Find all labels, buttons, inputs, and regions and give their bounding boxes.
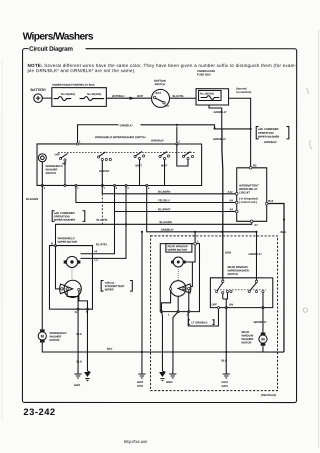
- svg-text:BLK: BLK: [221, 360, 227, 363]
- windshield wiper motor box: [49, 237, 92, 310]
- svg-text:GRN/BLK²: GRN/BLK²: [248, 253, 261, 256]
- ground G301/G401 center (open): [137, 371, 146, 388]
- rear switch unit left: [211, 280, 233, 306]
- wire GRN/BLK1 horizontal distribution: [78, 124, 251, 144]
- svg-text:YEL/BLU: YEL/BLU: [158, 199, 170, 202]
- svg-text:WIPER MOTOR: WIPER MOTOR: [167, 249, 187, 252]
- rear window wiper motor box: [160, 244, 199, 313]
- switch unit 2 OFF/INT: [97, 152, 111, 186]
- wire drop to switch box second feed: [176, 127, 178, 145]
- svg-text:IG1: IG1: [165, 105, 170, 108]
- wire rear motor ground left: [161, 312, 178, 371]
- svg-text:GRN/BLK¹: GRN/BLK¹: [151, 139, 164, 142]
- wire fuse14 output GRN/BLK1 elbow: [209, 105, 227, 129]
- svg-text:(Hatchback): (Hatchback): [261, 394, 276, 397]
- svg-text:A12: A12: [228, 191, 233, 194]
- scan artifact marks right edge: [303, 88, 312, 312]
- svg-text:WHT/BLU: WHT/BLU: [112, 95, 124, 98]
- svg-text:GRN/BLK¹: GRN/BLK¹: [213, 138, 226, 141]
- terminal A8: [230, 208, 239, 212]
- svg-text:BLK: BLK: [107, 348, 113, 351]
- svg-text:G301: G301: [137, 381, 144, 384]
- svg-text:2: 2: [179, 141, 181, 144]
- svg-text:MOTOR: MOTOR: [241, 342, 251, 345]
- ignition switch: [152, 80, 170, 108]
- svg-text:MOTOR: MOTOR: [49, 339, 59, 342]
- svg-text:M: M: [41, 334, 45, 339]
- wire battery to under-hood fuse box: [42, 97, 52, 99]
- terminal A9: [230, 199, 239, 203]
- svg-text:GRN/BLK¹: GRN/BLK¹: [120, 124, 133, 127]
- svg-text:4a: 4a: [74, 311, 77, 314]
- svg-text:No.36(30A): No.36(30A): [87, 93, 101, 96]
- svg-text:SWITCH: SWITCH: [155, 83, 166, 86]
- svg-text:Circuit Diagram: Circuit Diagram: [29, 46, 73, 53]
- wire LO into motor box: [80, 224, 126, 262]
- svg-text:GRN/BLK¹: GRN/BLK¹: [264, 141, 277, 144]
- windshield wiper/washer switch box: [37, 136, 202, 186]
- wire wiper motor grounds drop: [76, 309, 87, 371]
- svg-text:BLU/YEL: BLU/YEL: [97, 219, 109, 222]
- svg-text:OPERATION: OPERATION: [258, 132, 274, 135]
- under-hood fuse/relay box: [52, 84, 107, 107]
- svg-text:OFF/INT: OFF/INT: [99, 170, 110, 173]
- ground rear motor left (solid): [159, 370, 166, 380]
- wire GRN/BLK1 long bus to rear switch: [222, 129, 231, 280]
- wire GRN/BLK2 to rear washer motor: [253, 308, 266, 335]
- svg-text:WIPER MOTOR: WIPER MOTOR: [57, 241, 77, 244]
- cam park switch plate: [60, 280, 82, 297]
- rear window washer motor: [241, 331, 267, 352]
- wiper motor M1: [64, 256, 81, 267]
- rear cam park switch plate: [169, 281, 190, 297]
- rear cam internal wires: [161, 262, 192, 312]
- svg-text:GRN/BLK¹: GRN/BLK¹: [161, 229, 174, 232]
- terminal B5: [249, 165, 257, 170]
- wire LT GRN/BLK: [188, 308, 218, 326]
- fuse No.41 (80A): [54, 93, 76, 101]
- svg-text:with COMBINED: with COMBINED: [257, 128, 279, 131]
- svg-text:BLU/YEL: BLU/YEL: [96, 243, 108, 246]
- svg-text:G553: G553: [166, 381, 173, 384]
- svg-text:WHT: WHT: [137, 95, 143, 98]
- svg-text:BLK: BLK: [76, 360, 82, 363]
- svg-text:WIPER WASHER: WIPER WASHER: [54, 219, 75, 222]
- svg-text:1: 1: [77, 187, 79, 190]
- terminal labels wiper motor bottom: [74, 311, 88, 314]
- switch unit 4: [159, 151, 170, 185]
- svg-text:3: 3: [44, 187, 46, 190]
- windshield washer switch contact: [38, 154, 62, 186]
- svg-text:M: M: [261, 337, 265, 342]
- terminal labels rear motor bottom: [168, 314, 189, 317]
- scan artifact line right edge: [318, 30, 320, 448]
- svg-text:( control unit ): ( control unit ): [239, 201, 257, 204]
- svg-text:WIPER: WIPER: [105, 288, 114, 291]
- svg-text:No.14(20A): No.14(20A): [200, 93, 214, 96]
- rear window wiper/washer switch box: [210, 266, 272, 309]
- wire BLK/YEL ignition to under-dash fuse box: [170, 95, 197, 98]
- svg-text:BLK: BLK: [280, 231, 286, 234]
- svg-text:4: 4: [127, 187, 129, 190]
- rear switch mechanical link: [214, 289, 266, 291]
- svg-text:CIRCUIT: CIRCUIT: [239, 192, 250, 195]
- svg-text:UNDER-HOOD FUSE/RELAY BOX: UNDER-HOOD FUSE/RELAY BOX: [52, 84, 95, 87]
- svg-text:BLU/GRN: BLU/GRN: [158, 191, 170, 194]
- svg-text:BATTERY: BATTERY: [31, 88, 47, 92]
- svg-text:http://txz.ws/: http://txz.ws/: [124, 439, 148, 444]
- hatchback dashed box: [151, 236, 278, 397]
- wire rear motor feed from H4: [183, 231, 199, 262]
- wire GRN/BLK1 drop to rear switch right unit: [248, 231, 261, 281]
- terminal A10: [228, 191, 239, 195]
- switch unit 5: [177, 144, 194, 166]
- svg-text:LT GRN/BLK: LT GRN/BLK: [191, 322, 207, 325]
- fuse No.36 (30A): [80, 93, 105, 101]
- svg-text:BAT: BAT: [156, 92, 162, 95]
- wire WHT/BLU to ignition switch: [106, 95, 151, 100]
- cam switch internal wiring: [67, 290, 87, 309]
- wire B14 to right bus: [268, 204, 286, 353]
- svg-text:SWITCH: SWITCH: [227, 273, 238, 276]
- svg-text:BLU/GRN: BLU/GRN: [160, 221, 172, 224]
- svg-text:G301: G301: [74, 384, 81, 387]
- scan artifact line left edge: [1, 60, 3, 420]
- svg-text:MIST: MIST: [136, 164, 143, 167]
- svg-text:OFF: OFF: [211, 304, 217, 307]
- terminal A7: [250, 220, 258, 227]
- dotted link motor to cam: [71, 268, 73, 280]
- svg-text:GRN: GRN: [225, 252, 231, 255]
- rear wiper motor M2: [171, 257, 186, 267]
- svg-text:7: 7: [104, 187, 106, 190]
- intermittent wiper relay circuit box: [237, 168, 267, 222]
- wire drop BLK/GRN to washer motor: [26, 185, 42, 331]
- svg-text:1: 1: [168, 314, 170, 317]
- svg-text:Wipers/Washers: Wipers/Washers: [23, 31, 94, 42]
- fuse No.14 (20A): [199, 91, 222, 101]
- svg-text:G301: G301: [221, 381, 228, 384]
- option bracket with combined operation wiper washer (left): [52, 211, 85, 222]
- wire BLU/WHT H4 motor feed: [55, 185, 251, 245]
- svg-text:6: 6: [148, 187, 150, 190]
- svg-text:G401: G401: [137, 385, 144, 388]
- svg-text:BLU/WHT: BLU/WHT: [158, 208, 171, 211]
- svg-text:WIPER WASHER: WIPER WASHER: [258, 136, 279, 139]
- wire HI into motor box: [80, 211, 114, 253]
- svg-text:SWITCH: SWITCH: [46, 172, 57, 175]
- battery B1: [31, 88, 47, 103]
- svg-text:No.41(80A): No.41(80A): [61, 93, 75, 96]
- svg-text:G401: G401: [221, 385, 228, 388]
- terminal B14: [265, 200, 273, 205]
- wiper motor internal wire left: [55, 246, 60, 289]
- svg-text:8: 8: [116, 187, 118, 190]
- terminal marks on switch box bottom: [44, 140, 181, 190]
- note text: [28, 63, 297, 73]
- svg-text:WINDSHIELD WIPER/WASHER SWITCH: WINDSHIELD WIPER/WASHER SWITCH: [95, 136, 146, 139]
- internal connection note: [236, 88, 251, 95]
- svg-text:FUSE BOX: FUSE BOX: [197, 74, 211, 77]
- svg-text:A7: A7: [254, 224, 258, 227]
- wire BLU/YEL dashed option drop: [97, 194, 109, 225]
- wire BLK drop to ground G301: [141, 232, 143, 371]
- svg-text:A8: A8: [230, 208, 234, 211]
- svg-text:A9: A9: [230, 199, 234, 202]
- svg-text:GRN/BLK¹: GRN/BLK¹: [214, 111, 227, 114]
- wire internal connection to B5: [229, 98, 278, 166]
- ground G301 wiper motor (open): [74, 371, 82, 387]
- svg-text:Hi: Hi: [94, 250, 97, 253]
- svg-text:INT: INT: [62, 162, 67, 165]
- wire GRN/BLK2 H5: [141, 185, 257, 232]
- dotted link rear motor to cam: [177, 267, 179, 281]
- option bracket without intermittent wiper: [96, 243, 132, 291]
- ground G301/G401 rear switch (open): [221, 371, 229, 388]
- ground G553 rear motor right (open): [166, 371, 176, 384]
- svg-text:connection): connection): [236, 91, 251, 94]
- wire BLU/WHT H3: [115, 185, 237, 211]
- svg-text:Lo: Lo: [94, 259, 98, 262]
- under-dash fuse box: [196, 70, 229, 105]
- svg-text:B14: B14: [268, 200, 273, 203]
- rear switch internal drops: [223, 293, 263, 371]
- switch unit 1 OFF/INT: [55, 153, 68, 185]
- circuit diagram frame: [22, 49, 296, 403]
- ground wiper motor E (solid): [84, 370, 91, 380]
- ground bus BLK: [42, 343, 284, 354]
- svg-text:23-242: 23-242: [23, 406, 55, 417]
- wire YEL/BLU H2: [76, 185, 237, 202]
- svg-text:OFF: OFF: [55, 153, 61, 156]
- svg-text:BLK: BLK: [76, 333, 82, 336]
- mechanical link dashed line in switch: [58, 151, 196, 153]
- wire BLU/GRN H1: [102, 185, 236, 193]
- svg-text:5: 5: [79, 140, 81, 143]
- svg-text:ON: ON: [229, 304, 233, 307]
- svg-text:B5: B5: [253, 165, 257, 168]
- option bracket with combined operation wiper washer (top right): [256, 127, 289, 139]
- svg-text:B: B: [51, 242, 53, 245]
- svg-text:ple GRN/BLK¹ and GRN/BLK² are: ple GRN/BLK¹ and GRN/BLK² are not the sa…: [28, 68, 136, 73]
- svg-text:2: 2: [197, 241, 199, 244]
- svg-text:GRN/BLK²: GRN/BLK²: [253, 321, 266, 324]
- windshield washer motor: [38, 329, 66, 342]
- switch unit 3: [134, 151, 145, 185]
- svg-text:BLK/GRN: BLK/GRN: [26, 198, 38, 201]
- svg-text:BLK/YEL: BLK/YEL: [173, 95, 185, 98]
- rear switch unit right: [248, 280, 264, 292]
